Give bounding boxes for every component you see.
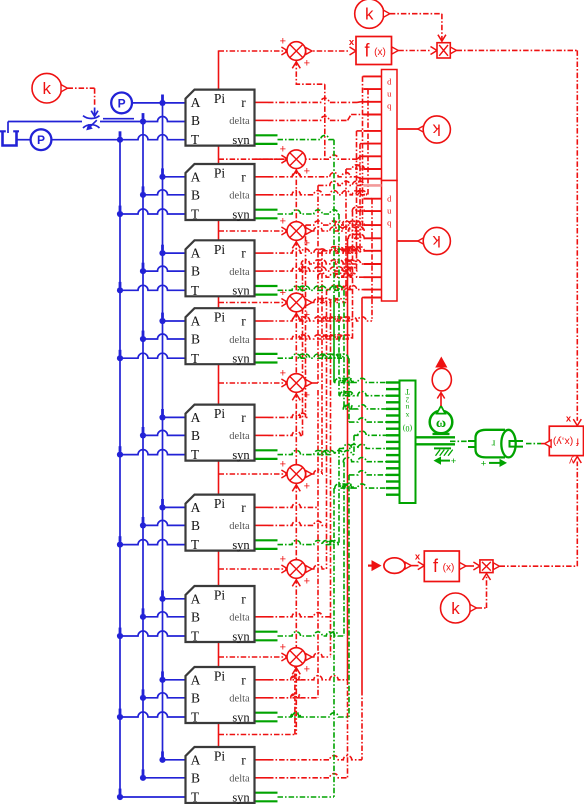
svg-text:delta: delta <box>229 613 250 624</box>
wire lower phase line bracket to P meter <box>17 139 31 141</box>
wire sum4 entry to data-merge <box>346 165 364 169</box>
svg-text:+: + <box>280 642 286 654</box>
wire to f(x) bottom <box>411 565 418 567</box>
function block f(x) top <box>356 37 392 65</box>
gain k control of fault element <box>32 73 62 103</box>
wire summer S1 bottom feed from next connector <box>295 169 297 232</box>
junction dot A tap Pi3 <box>159 250 165 256</box>
junction dot B tap Pi3 <box>140 268 146 274</box>
wire k bottom to multiplier <box>477 607 487 609</box>
Pi section block 6 <box>186 495 255 551</box>
wire syn riser Pi1 <box>333 140 335 300</box>
gain k top <box>355 0 384 28</box>
bus T vertical <box>119 140 121 797</box>
wire Pi4 to Pi5 connector <box>218 364 220 404</box>
multiplier top <box>437 43 450 58</box>
wire d2 output run <box>255 194 269 196</box>
svg-text:(x): (x) <box>443 563 455 574</box>
Pi section block 9 <box>186 747 255 803</box>
wire syn riser Pi9 <box>333 488 335 797</box>
wire d5 output run <box>255 434 269 436</box>
wire sum4 riser <box>345 169 347 303</box>
wire d2 riser <box>367 89 369 195</box>
svg-text:d: d <box>387 77 392 87</box>
data merge block 1 <box>382 70 398 181</box>
svg-text:delta: delta <box>229 431 250 442</box>
wire machine input entry 9 <box>334 484 386 488</box>
wire syn signal Pi7 <box>278 632 345 636</box>
bus A vertical <box>162 103 164 760</box>
svg-text:k: k <box>432 232 441 249</box>
wire source corner drop <box>7 122 9 134</box>
svg-text:Pi: Pi <box>214 91 226 106</box>
wire sum3 entry to data-merge <box>363 75 364 77</box>
svg-text:Pi: Pi <box>214 496 226 511</box>
wire d9 output run <box>255 777 269 779</box>
svg-text:A: A <box>191 500 201 515</box>
junction dot A tap Pi9 <box>159 757 165 763</box>
wire r4 riser <box>371 199 373 321</box>
wire Pi9 connector riser to summer S7 feed <box>219 734 295 736</box>
svg-text:A: A <box>191 169 201 184</box>
wire summer S4 bottom feed from next connector <box>295 392 297 474</box>
junction dot B tap Pi5 <box>140 432 146 438</box>
svg-text:Pi: Pi <box>214 406 226 421</box>
wire fault element to B bus junction <box>100 117 186 122</box>
wire A tap of Pi1 <box>163 102 186 104</box>
svg-text:x: x <box>349 37 355 48</box>
wire Pi6 to Pi7 connector <box>218 551 220 586</box>
svg-text:B: B <box>191 609 200 624</box>
wire T tap of Pi1 with crossover hops <box>120 135 186 140</box>
junction dot A tap Pi7 <box>159 596 165 602</box>
gain k bottom <box>441 593 471 623</box>
wire d6 output run to lane <box>255 524 269 526</box>
wire sum8 output run <box>306 656 313 658</box>
svg-text:f (x,y): f (x,y) <box>553 436 579 448</box>
svg-text:T: T <box>191 629 200 644</box>
wire syn riser Pi8 <box>348 475 350 717</box>
svg-text:+: + <box>280 36 286 48</box>
junction dot B tap Pi9 <box>140 775 146 781</box>
svg-text:y: y <box>569 455 574 466</box>
wire sum3 riser <box>362 76 364 231</box>
wire d4 entry to data-merge <box>352 207 364 211</box>
wire syn riser Pi5 <box>353 435 355 454</box>
wire d4 output run <box>255 338 269 340</box>
svg-text:+: + <box>304 481 310 493</box>
wire f(x) bottom to multiplier <box>466 565 474 567</box>
wire r6 entry to data-merge <box>318 273 364 277</box>
svg-text:q: q <box>387 101 392 111</box>
wire d5 riser <box>302 264 304 435</box>
svg-text:+: + <box>304 664 310 676</box>
svg-text:k: k <box>432 121 441 138</box>
wire multiplier bottom to f(y x) y input <box>500 565 578 567</box>
wire T tap of Pi9 <box>120 796 186 798</box>
svg-text:+: + <box>481 458 487 469</box>
wire to summer S2 input <box>219 230 288 232</box>
wire A tap of Pi7 <box>163 598 186 600</box>
svg-text:A: A <box>191 410 201 425</box>
wire A tap of Pi9 <box>163 759 186 761</box>
junction dot T tap Pi2 <box>117 211 123 217</box>
wire syn signal Pi2 <box>278 210 340 214</box>
wire r3 entry to data-merge <box>360 143 364 145</box>
wire Pi1 top stub <box>218 50 220 89</box>
svg-text:+: + <box>280 287 286 299</box>
breaker closed contact segment <box>103 118 134 120</box>
svg-text:T: T <box>191 132 200 147</box>
mass cylinder shaft hub <box>510 441 524 447</box>
wire to summer S7 input <box>219 656 288 658</box>
wire B tap of Pi8 <box>143 693 186 698</box>
svg-text:syn: syn <box>232 352 250 366</box>
svg-text:T: T <box>191 710 200 725</box>
svg-text:B: B <box>191 264 200 279</box>
wire summer S5 bottom feed from next connector <box>295 483 297 569</box>
wire sum6 riser <box>321 251 323 474</box>
Pi section block 4 <box>186 308 255 364</box>
function block f(x y) <box>549 426 583 455</box>
svg-text:(0): (0) <box>403 424 413 433</box>
svg-text:T: T <box>405 387 410 396</box>
multimass machine block <box>400 381 416 504</box>
wire multiplier top to f(y x) x input <box>457 49 578 51</box>
multiplier bottom <box>480 560 493 573</box>
wire syn output Pi1 double stub <box>255 134 278 136</box>
wire Pi7 to Pi8 connector <box>218 642 220 667</box>
wire syn signal Pi6 <box>278 540 340 544</box>
svg-text:+: + <box>451 456 457 467</box>
svg-text:k: k <box>451 599 460 618</box>
wire r4 output run <box>255 320 269 322</box>
wire to summer S5 input <box>219 473 288 475</box>
wire r3 riser <box>359 144 361 254</box>
junction dot A tap Pi8 <box>159 677 165 683</box>
svg-text:x: x <box>405 411 409 420</box>
svg-text:r: r <box>241 500 246 515</box>
junction dot A tap Pi5 <box>159 414 165 420</box>
wire r6 output run to lane <box>255 506 269 508</box>
wire machine input entry 6 <box>339 444 386 448</box>
wire f(x) to multiplier top <box>398 50 430 52</box>
wire machine input entry 7 <box>343 458 386 462</box>
wire syn riser Pi4 <box>348 358 350 422</box>
wire machine input entry 8 <box>349 471 386 475</box>
svg-text:A: A <box>191 672 201 687</box>
summer S0 <box>287 42 306 61</box>
wire syn signal Pi8 <box>278 713 350 717</box>
wire T tap of Pi6 <box>120 540 186 545</box>
svg-text:delta: delta <box>229 521 250 532</box>
P meter 2 <box>31 129 52 150</box>
svg-text:syn: syn <box>232 133 250 147</box>
summer S1 <box>287 150 306 169</box>
svg-text:+: + <box>280 368 286 380</box>
svg-text:delta: delta <box>229 694 250 705</box>
torque direction arrow right <box>489 462 501 464</box>
wire to summer S0 input <box>219 50 288 52</box>
wire sum7 riser <box>326 290 328 569</box>
wire machine input entry 5 <box>354 431 386 435</box>
svg-text:r: r <box>241 246 246 261</box>
summer S3 <box>287 293 306 312</box>
svg-text:T: T <box>191 283 200 298</box>
svg-text:r: r <box>241 410 246 425</box>
wire machine input entry 2 <box>339 392 386 396</box>
wire sum7 output run <box>306 568 313 570</box>
junction dot A tap Pi2 <box>159 174 165 180</box>
wire sum2 direct to data-merge <box>255 158 269 160</box>
svg-text:A: A <box>191 314 201 329</box>
svg-text:u: u <box>387 89 392 99</box>
svg-text:k: k <box>43 79 52 98</box>
svg-text:k: k <box>365 5 374 24</box>
input channel ellipse <box>384 558 405 574</box>
svg-text:delta: delta <box>229 191 250 202</box>
wire speed signal to output channel <box>440 394 442 407</box>
wire summer S0 output to f(x) <box>306 50 349 52</box>
wire d8 riser <box>317 390 319 698</box>
wire summer S7 bottom feed from next connector <box>295 666 297 734</box>
wire to summer S6 input <box>219 568 288 570</box>
wire B tap of Pi2 <box>143 190 186 195</box>
junction dot A tap Pi6 <box>159 504 165 510</box>
wire syn signal Pi9 <box>278 796 335 798</box>
wire d4 riser <box>352 211 354 339</box>
wire Pi5 to Pi6 connector <box>218 461 220 495</box>
source bracket terminal <box>3 132 17 146</box>
svg-text:delta: delta <box>229 267 250 278</box>
wire r8 output run <box>255 679 269 681</box>
svg-text:Pi: Pi <box>214 749 226 764</box>
svg-text:P: P <box>37 133 45 147</box>
svg-text:ω: ω <box>436 416 446 431</box>
Pi section block 3 <box>186 240 255 296</box>
wire syn riser Pi7 <box>343 462 345 636</box>
wire d7 output run to lane <box>255 616 269 618</box>
wire Pi1 to Pi2 connector <box>218 146 220 164</box>
wire r1 direct to data-merge <box>255 101 269 103</box>
wire B tap of Pi6 <box>143 520 186 525</box>
wire d3 entry to data-merge <box>357 130 364 132</box>
svg-text:T: T <box>191 447 200 462</box>
svg-text:x: x <box>566 414 572 425</box>
wire B tap of Pi9 <box>143 777 186 779</box>
svg-text:+: + <box>304 166 310 178</box>
wire A tap of Pi6 <box>163 506 186 508</box>
wire B tap of Pi5 <box>143 430 186 435</box>
wire r8 riser <box>347 238 349 680</box>
svg-text:syn: syn <box>232 538 250 552</box>
wire to summer S1 input <box>219 158 288 160</box>
wire syn signal Pi3 <box>278 286 345 290</box>
wire T tap of Pi8 <box>120 712 186 717</box>
svg-text:syn: syn <box>232 710 250 724</box>
svg-text:r: r <box>241 314 246 329</box>
wire A tap of Pi5 <box>163 416 186 418</box>
svg-text:T: T <box>191 790 200 804</box>
wire A tap of Pi3 <box>163 252 186 254</box>
wire syn riser Pi2 <box>338 214 340 396</box>
wire syn output Pi4 double stub <box>255 353 278 355</box>
junction dot B bus Pi1 <box>140 118 146 124</box>
svg-text:A: A <box>191 752 201 767</box>
svg-text:A: A <box>191 591 201 606</box>
svg-text:B: B <box>191 113 200 128</box>
junction dot T bus Pi1 <box>117 137 123 143</box>
svg-text:x: x <box>415 552 421 563</box>
wire machine input entry 1 <box>334 378 386 382</box>
Pi section block 8 <box>186 667 255 723</box>
summer S4 <box>287 374 306 393</box>
svg-text:delta: delta <box>229 116 250 127</box>
svg-text:syn: syn <box>232 629 250 643</box>
svg-text:A: A <box>191 246 201 261</box>
junction dot T tap Pi9 <box>117 794 123 800</box>
junction dot T tap Pi3 <box>117 287 123 293</box>
wire sum6 entry to data-merge <box>322 247 364 251</box>
Pi section block 5 <box>186 405 255 461</box>
wire T tap of Pi4 <box>120 353 186 358</box>
svg-text:B: B <box>191 187 200 202</box>
junction dot T tap Pi5 <box>117 452 123 458</box>
svg-text:Pi: Pi <box>214 166 226 181</box>
mass cylinder <box>476 430 506 458</box>
svg-text:syn: syn <box>232 790 250 804</box>
svg-text:r: r <box>241 752 246 767</box>
variable impedance fault symbol <box>83 116 100 119</box>
wire machine input entry 4 <box>349 418 386 422</box>
wire k to fault element dash-dot <box>68 87 95 89</box>
svg-text:u: u <box>387 206 392 216</box>
wire upper phase line from source to fault element <box>8 121 82 123</box>
gain k output of data merge 1 <box>397 128 419 130</box>
wire T tap of Pi3 <box>120 285 186 290</box>
torque direction arrow left <box>436 460 450 462</box>
wire syn output Pi8 double stub <box>255 712 278 714</box>
wire Pi2 to Pi3 connector <box>218 220 220 240</box>
junction dot B tap Pi4 <box>140 336 146 342</box>
wire sum3 output run <box>306 230 313 232</box>
wire sum5 riser <box>317 185 319 383</box>
svg-text:q: q <box>387 218 392 228</box>
wire B tap of Pi4 <box>143 334 186 339</box>
data merge block 2 <box>382 181 398 302</box>
wire summer S0 bottom feed <box>296 60 325 84</box>
wire r3 output run <box>255 252 269 254</box>
summer S7 <box>287 648 306 667</box>
wire d3 output run <box>255 270 269 272</box>
wire syn signal Pi1 <box>278 135 335 139</box>
wire syn output Pi2 double stub <box>255 209 278 211</box>
output channel arrow <box>435 357 447 368</box>
wire lower phase line P meter to T bus <box>52 139 120 141</box>
svg-text:B: B <box>191 428 200 443</box>
wire syn output Pi3 double stub <box>255 285 278 287</box>
wire to summer S3 input <box>219 302 288 304</box>
svg-text:+: + <box>304 309 310 321</box>
wire syn output Pi6 double stub <box>255 539 278 541</box>
svg-text:P: P <box>118 96 126 110</box>
function block f(x) bottom <box>424 551 459 582</box>
svg-text:r: r <box>241 169 246 184</box>
svg-text:+: + <box>304 58 310 70</box>
svg-text:A: A <box>191 95 201 110</box>
P meter 1 <box>111 93 132 114</box>
svg-text:+: + <box>280 554 286 566</box>
wire A tap of Pi2 <box>163 176 186 178</box>
shaft ground reference <box>434 447 451 449</box>
junction dot T tap Pi7 <box>117 633 123 639</box>
wire d9 riser <box>347 680 349 778</box>
output channel ellipse speed <box>432 368 451 391</box>
wire to summer S4 input <box>219 382 288 384</box>
svg-text:Pi: Pi <box>214 310 226 325</box>
wire r8 entry to data-merge <box>348 234 365 238</box>
svg-text:Pi: Pi <box>214 588 226 603</box>
wire summer S2 bottom feed from next connector <box>295 240 297 302</box>
junction dot T tap Pi6 <box>117 542 123 548</box>
wire syn output Pi5 double stub <box>255 449 278 451</box>
junction dot A bus Pi1 <box>159 100 165 106</box>
gain k output of data merge 2 <box>397 240 419 242</box>
svg-text:2: 2 <box>405 395 409 403</box>
wire syn output Pi7 double stub <box>255 631 278 633</box>
wire sum5 entry to data-merge <box>318 181 364 185</box>
junction dot B tap Pi2 <box>140 192 146 198</box>
svg-text:+: + <box>304 576 310 588</box>
wire sum8 riser <box>330 302 332 657</box>
junction dot B tap Pi8 <box>140 695 146 701</box>
svg-text:+: + <box>280 144 286 156</box>
bus B vertical <box>142 122 144 778</box>
wire r5 entry to data-merge <box>306 221 365 225</box>
svg-text:r: r <box>241 672 246 687</box>
wire summer S3 bottom feed from next connector <box>295 312 297 383</box>
wire syn signal Pi5 <box>278 450 355 454</box>
summer S2 <box>287 222 306 241</box>
wire d5 entry to data-merge <box>301 260 363 264</box>
Pi section block 2 <box>186 164 255 220</box>
wire sum4 output run <box>306 302 313 304</box>
wire sum7 entry to data-merge <box>327 285 364 289</box>
wire syn riser Pi3 <box>343 290 345 409</box>
wire B tap of Pi3 <box>143 266 186 271</box>
svg-text:delta: delta <box>229 335 250 346</box>
svg-text:T: T <box>191 207 200 222</box>
wire r4 entry to data-merge <box>364 198 373 200</box>
wire Pi8 to Pi9 connector <box>218 723 220 747</box>
wire d2 entry to data-merge <box>364 88 369 90</box>
svg-text:Pi: Pi <box>214 242 226 257</box>
external input arrow <box>372 560 382 571</box>
wire shaft to f(y x) <box>526 443 541 445</box>
wire syn riser Pi6 <box>338 449 340 545</box>
shaft from machine <box>416 436 456 438</box>
svg-text:+: + <box>304 390 310 402</box>
Pi section block 7 <box>186 586 255 642</box>
svg-text:d: d <box>387 194 392 204</box>
junction dot A tap Pi4 <box>159 318 165 324</box>
wire T tap of Pi2 <box>120 209 186 214</box>
svg-text:u: u <box>405 403 409 412</box>
svg-text:+: + <box>280 459 286 471</box>
junction dot B tap Pi7 <box>140 614 146 620</box>
svg-text:+: + <box>304 238 310 250</box>
svg-text:T: T <box>191 351 200 366</box>
